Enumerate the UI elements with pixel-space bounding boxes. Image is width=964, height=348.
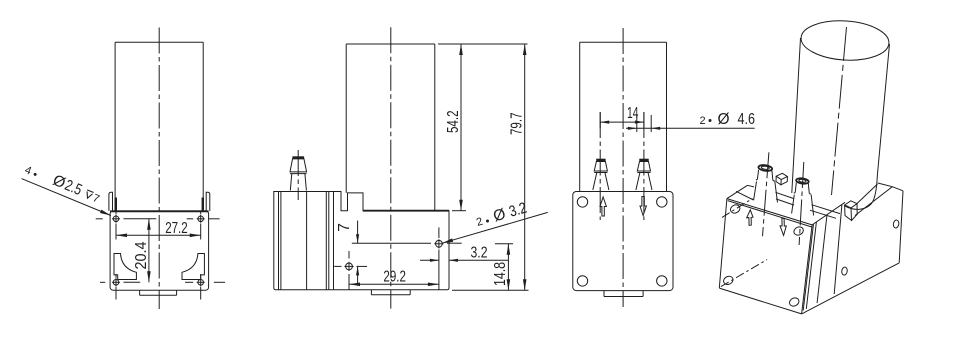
view4 plate seams on right face	[803, 205, 842, 311]
view4 clamp step upper line	[748, 185, 841, 213]
view2 nozzle barb	[290, 158, 307, 191]
svg-text:Ø: Ø	[491, 206, 507, 226]
view3 left nozzle centerline	[599, 112, 601, 220]
view3 bottom tab	[604, 291, 643, 297]
view1 screw hole bottom-left	[112, 278, 120, 286]
view2 label 2xD3.2	[442, 200, 548, 244]
view4 flow arrow up	[747, 210, 753, 226]
view4 dashed diagonals	[721, 199, 767, 287]
view1 left clamp ear	[109, 192, 117, 211]
svg-text:14.8: 14.8	[492, 262, 509, 286]
view3 right nozzle centerline	[643, 112, 645, 220]
view4 right face holes	[841, 220, 899, 276]
svg-text:2: 2	[475, 216, 484, 229]
view4 right face edges	[802, 183, 903, 314]
view4 cylinder bottom arc	[845, 176, 877, 209]
view4 back face top edge	[727, 199, 812, 227]
view2 dimension 3.2	[420, 245, 508, 262]
view4 cylinder left edge	[792, 38, 801, 193]
view1 vertical centerline	[158, 28, 160, 310]
view1 hole centerline arms	[96, 211, 225, 300]
view1 pump body outline	[110, 211, 209, 290]
svg-text:27.2: 27.2	[165, 220, 188, 237]
view4 right nozzle centerline	[799, 162, 804, 245]
svg-text:20.4: 20.4	[133, 241, 150, 269]
view1 screw hole top-right	[197, 215, 205, 223]
view1 bottom tab	[140, 290, 177, 295]
view2 cylinder centerline	[390, 27, 392, 308]
view3 right nozzle	[636, 160, 652, 190]
view4 head top face left edge	[727, 185, 748, 198]
svg-text:79.7: 79.7	[509, 113, 526, 136]
svg-text:2: 2	[700, 115, 706, 127]
view1 dimension 27.2	[116, 220, 201, 237]
view4 cylinder top ellipse	[800, 18, 890, 63]
view3 label 2xD4.6	[626, 111, 755, 132]
view1 left corner gusset	[114, 254, 136, 280]
svg-text:4.6: 4.6	[738, 111, 756, 128]
svg-text:54.2: 54.2	[445, 111, 462, 134]
svg-text:4: 4	[23, 164, 33, 177]
view2 body profile outline	[274, 192, 449, 290]
view4 cylinder axis	[832, 27, 847, 195]
view4 clamp step lower line	[736, 191, 836, 218]
svg-text:Ø: Ø	[718, 111, 730, 128]
view2 dimension 79.7	[452, 44, 529, 290]
view3 pump body outline	[573, 192, 673, 291]
view2 nozzle centerline	[297, 150, 299, 200]
view1 screw hole bottom-right	[197, 278, 205, 286]
view3 vertical centerline	[622, 28, 624, 307]
view4 flow arrow down	[780, 218, 786, 235]
view4 left nozzle	[754, 164, 778, 202]
view4 back face holes	[722, 203, 804, 307]
view3 screw hole bottom-right	[657, 276, 667, 286]
view1 right corner gusset	[182, 254, 204, 280]
view2 dimension 54.2	[438, 44, 528, 211]
view1 screw hole top-left	[112, 215, 120, 223]
view3 flow arrow up	[600, 197, 606, 216]
svg-text:3.2: 3.2	[471, 245, 488, 262]
view2 hole right	[434, 227, 443, 290]
view4 left nozzle centerline	[763, 152, 769, 236]
view1 label 4xD2.5 depth7	[22, 160, 111, 215]
view3 screw hole top-left	[577, 197, 587, 207]
svg-text:7: 7	[336, 223, 353, 232]
view4 cylinder right edge	[877, 44, 889, 176]
svg-text:29.2: 29.2	[383, 269, 406, 286]
view1 motor cylinder M1	[115, 42, 203, 210]
view4 right nozzle	[792, 178, 814, 216]
view4 left ear bracket	[776, 173, 787, 185]
view3 screw hole bottom-left	[577, 276, 587, 286]
view2 dimension 7	[336, 221, 462, 286]
view2 plate seam lines	[279, 192, 334, 290]
view2 hole left	[334, 251, 367, 290]
view2 bottom tab	[371, 290, 410, 295]
view3 screw hole top-right	[657, 197, 667, 207]
view1 right clamp ear	[202, 192, 210, 211]
view2 dimension 14.8	[492, 244, 513, 290]
svg-text:3.2: 3.2	[507, 200, 529, 221]
view4 back face edges	[719, 199, 812, 314]
view2 dimension 29.2	[349, 269, 439, 287]
view3 motor cylinder	[580, 42, 667, 191]
view3 left nozzle	[593, 160, 609, 190]
view3 dimension 14	[600, 105, 644, 129]
view2 motor cylinder	[346, 44, 435, 211]
view3 flow arrow down	[640, 197, 646, 216]
view4 right ear bracket	[845, 201, 858, 221]
view1 dimension 20.4	[133, 219, 151, 282]
